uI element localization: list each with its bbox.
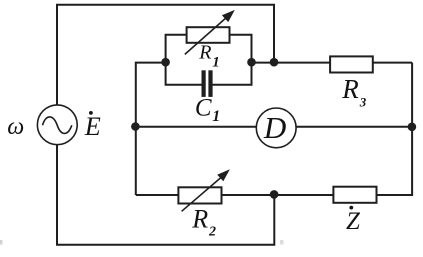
wire Z box to right vertical	[377, 63, 412, 195]
junction dot node 3 (top rail joint)	[270, 58, 279, 67]
svg-text:1: 1	[212, 54, 220, 70]
source E circle	[37, 105, 77, 145]
wire top rail	[57, 5, 274, 105]
resistor R3 box	[330, 56, 373, 72]
edge artifact bottom-left	[0, 240, 3, 245]
wire left node stub and left tall vertical	[136, 63, 166, 195]
resistor R2 arrow line	[182, 178, 221, 212]
capacitor C1 right plate	[208, 70, 212, 97]
sine wave inside source	[43, 117, 72, 134]
wire R2 to bottom node to Z box	[222, 194, 333, 196]
svg-text:C: C	[195, 95, 212, 122]
svg-text:1: 1	[212, 108, 220, 125]
svg-text:R: R	[198, 41, 211, 63]
label E dot accent	[89, 111, 93, 115]
resistor R1 box	[187, 27, 230, 43]
svg-text:R: R	[341, 74, 359, 104]
wire source bottom + bottom rail	[57, 145, 274, 245]
junction dot node 6 (bottom node)	[270, 190, 279, 199]
junction dot node 2 (right of R1C1)	[247, 58, 256, 67]
junction dot node 1 (left of R1C1)	[161, 58, 170, 67]
label Z dot accent	[349, 206, 353, 210]
svg-text:R: R	[191, 205, 208, 234]
resistor R2 box	[178, 187, 221, 203]
wire C1 branch left	[166, 62, 202, 84]
resistor R2 arrowhead	[217, 169, 230, 181]
svg-text:3: 3	[359, 94, 367, 109]
wire R1 branch right drop	[230, 35, 252, 63]
detector D circle	[256, 108, 296, 148]
wire C1 branch right	[212, 62, 251, 84]
svg-text:D: D	[263, 110, 286, 145]
capacitor C1 left plate	[202, 70, 206, 97]
svg-text:2: 2	[208, 225, 216, 240]
resistor R1 arrow line	[185, 16, 228, 54]
svg-text:Z: Z	[346, 208, 361, 235]
wire node line dot2 to R3	[252, 62, 330, 64]
junction dot node 4 (left bridge node)	[131, 122, 140, 131]
svg-text:E: E	[84, 112, 101, 141]
impedance Z box	[333, 187, 376, 203]
wire R3 to right corner	[374, 62, 413, 64]
junction dot node 5 (right bridge node)	[408, 123, 417, 132]
wire mid rail	[136, 126, 412, 128]
wire to R2	[136, 194, 178, 196]
wire R1 branch left riser	[166, 35, 186, 63]
svg-text:ω: ω	[7, 114, 24, 140]
resistor R1 arrowhead	[222, 10, 235, 22]
edge artifact below bottom node	[280, 240, 284, 245]
